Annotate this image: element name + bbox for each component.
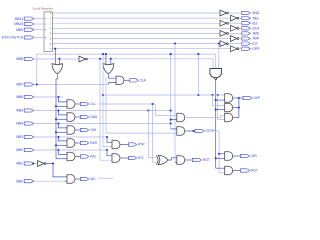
svg-text:MB7: MB7 bbox=[16, 83, 23, 87]
svg-text:RGT: RGT bbox=[251, 169, 258, 173]
svg-text:IOT: IOT bbox=[252, 42, 258, 46]
svg-text:CML: CML bbox=[90, 128, 97, 132]
svg-text:3 to 8 Decoder: 3 to 8 Decoder bbox=[32, 7, 52, 11]
svg-text:STOP: STOP bbox=[205, 129, 215, 133]
svg-text:RTR: RTR bbox=[138, 143, 145, 147]
svg-text:MB9: MB9 bbox=[16, 28, 23, 32]
svg-text:MB8: MB8 bbox=[16, 57, 23, 61]
svg-text:IAC: IAC bbox=[90, 177, 96, 181]
svg-text:MB5: MB5 bbox=[16, 109, 23, 113]
svg-text:DCA: DCA bbox=[252, 27, 260, 31]
svg-text:JMP: JMP bbox=[252, 37, 260, 41]
svg-text:MB10: MB10 bbox=[14, 22, 23, 26]
svg-text:EXEC/FETCH: EXEC/FETCH bbox=[2, 36, 24, 40]
svg-text:MB4: MB4 bbox=[16, 122, 23, 126]
svg-text:RAL: RAL bbox=[90, 155, 96, 159]
svg-text:RTL: RTL bbox=[138, 156, 144, 160]
svg-text:DIR: DIR bbox=[251, 154, 257, 158]
svg-text:ROT: ROT bbox=[203, 158, 210, 162]
svg-text:AND: AND bbox=[252, 11, 260, 15]
svg-text:JMS: JMS bbox=[252, 32, 260, 36]
svg-text:CMA: CMA bbox=[90, 115, 98, 119]
svg-text:MB2: MB2 bbox=[16, 148, 23, 152]
svg-text:SKP: SKP bbox=[253, 96, 260, 100]
svg-text:MB0: MB0 bbox=[16, 179, 23, 183]
svg-text:MB1: MB1 bbox=[16, 162, 23, 166]
svg-text:ISZ: ISZ bbox=[252, 21, 257, 25]
svg-text:TAD: TAD bbox=[252, 16, 259, 20]
svg-text:RAR: RAR bbox=[90, 141, 97, 145]
svg-text:CLL: CLL bbox=[90, 102, 96, 106]
svg-text:CLA: CLA bbox=[140, 79, 147, 83]
svg-text:MB6: MB6 bbox=[16, 95, 23, 99]
svg-text:MB11: MB11 bbox=[15, 17, 24, 21]
svg-text:MB3: MB3 bbox=[16, 135, 23, 139]
svg-text:OPR: OPR bbox=[252, 47, 260, 51]
